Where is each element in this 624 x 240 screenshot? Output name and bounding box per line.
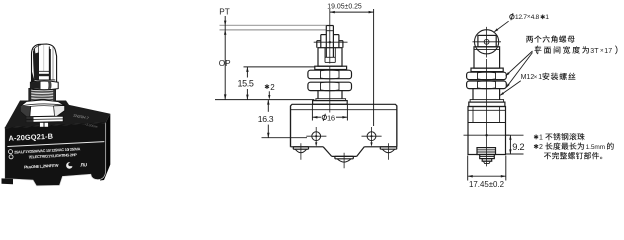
- case (detail): [468, 107, 506, 155]
- hex nut 2: [308, 82, 352, 90]
- hex nut 2 (detail): [467, 81, 507, 89]
- mounting hole left: [312, 132, 321, 141]
- corrected bottom profile: [290, 146, 398, 158]
- hex nut 1: [308, 70, 352, 79]
- washer top: [471, 68, 503, 72]
- svg-text:ЛU: ЛU: [80, 162, 87, 168]
- svg-text:2: 2: [539, 144, 543, 151]
- svg-text:4.8: 4.8: [531, 14, 540, 21]
- svg-text:3T: 3T: [590, 48, 599, 55]
- bushing collar: [317, 40, 321, 42]
- svg-text:12.7: 12.7: [515, 14, 527, 21]
- product photo: switch body (dark case): [2, 101, 111, 186]
- seat washer: [316, 99, 346, 101]
- centre line lower: [329, 66, 331, 113]
- dimension 15.5: [246, 67, 248, 78]
- mounting-hole centre reference line: [262, 137, 308, 139]
- dimension 9.2: [506, 134, 524, 136]
- free position reference lines: [220, 24, 327, 26]
- svg-text:PT: PT: [219, 8, 229, 17]
- leader: two hex nuts: [506, 51, 533, 76]
- roller plunger of photo: [21, 44, 65, 127]
- svg-text:M12: M12: [521, 74, 535, 81]
- svg-text:1.5mm: 1.5mm: [586, 144, 605, 151]
- switch body outline: [291, 104, 397, 156]
- plunger pin: [326, 25, 333, 27]
- label text on switch body: [7, 129, 106, 172]
- plunger housing: [474, 47, 500, 68]
- terminal screw centre: [335, 155, 353, 157]
- note *2 incomplete thread: [534, 144, 538, 149]
- washer: [315, 66, 347, 69]
- label ⌀12.7×4.8 *1: [510, 15, 514, 19]
- body top reference line: [215, 99, 314, 101]
- roller detail: crosshair: [473, 41, 502, 43]
- svg-text:15.5: 15.5: [237, 79, 253, 89]
- svg-text:1: 1: [539, 134, 543, 141]
- svg-text:19.05±0.25: 19.05±0.25: [327, 4, 362, 11]
- note *2 pointer: [265, 84, 269, 89]
- roller circle: [475, 30, 499, 54]
- body parting line: [291, 109, 397, 111]
- PT/OP dimension line: [224, 16, 226, 100]
- svg-text:17.45±0.2: 17.45±0.2: [469, 180, 504, 189]
- mounting flange: [313, 101, 348, 105]
- svg-text:×: ×: [534, 74, 538, 81]
- label: width across flats (Chinese): [536, 46, 539, 55]
- roller pin cross: [314, 41, 348, 43]
- plunger guides: [321, 34, 327, 36]
- svg-text:1: 1: [545, 14, 549, 21]
- svg-text:2: 2: [270, 83, 275, 92]
- seat washer (detail): [470, 100, 504, 103]
- lower plunger stack: [477, 148, 496, 155]
- label: two hex nuts (Chinese): [526, 35, 574, 42]
- plunger centre line: [329, 9, 331, 64]
- dimension 16.3: [267, 100, 269, 112]
- roller holder: [478, 35, 496, 46]
- terminal screw left: [293, 146, 308, 148]
- svg-text:16.3: 16.3: [258, 114, 274, 124]
- dimension ⌀16: [311, 105, 313, 121]
- note *1 stainless steel ball: [534, 135, 538, 140]
- threaded bushing (detail): [472, 89, 474, 100]
- svg-text:OP: OP: [219, 59, 231, 68]
- threaded bushing: [318, 48, 342, 66]
- OP reference line: [244, 66, 315, 68]
- centre lines (detail): [464, 134, 510, 136]
- svg-text:17: 17: [604, 48, 612, 55]
- svg-text:1: 1: [538, 74, 542, 81]
- terminal screw right: [380, 146, 396, 148]
- svg-text:9.2: 9.2: [512, 141, 524, 152]
- svg-text:16: 16: [327, 113, 335, 122]
- hex nut 1 (detail): [467, 72, 507, 79]
- bushing below nuts: [317, 91, 319, 99]
- flange (detail): [469, 102, 505, 106]
- mounting hole right: [367, 132, 376, 141]
- dimension 17.45±0.2: [467, 156, 469, 181]
- leader: M12 screw: [500, 81, 521, 96]
